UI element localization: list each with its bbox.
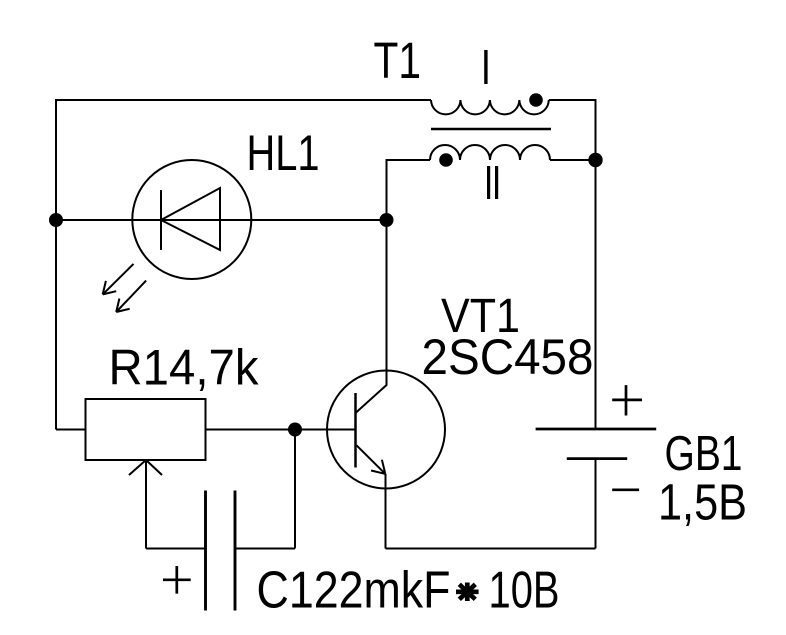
dot winding I phase: [529, 93, 543, 107]
capacitor C1 left plate: [204, 491, 207, 611]
wire winding I right to corner: [549, 100, 596, 160]
asterisk star in C1 value: [456, 583, 479, 602]
wire base node to transistor: [295, 429, 356, 431]
LED HL1 emission arrow 1: [103, 264, 134, 295]
resistor R1 body: [86, 399, 206, 460]
resistor R1 wiper arrow: [129, 460, 162, 549]
svg-text:10B: 10B: [489, 562, 560, 620]
LED HL1 emission arrow 2: [116, 281, 146, 312]
battery minus sign: [612, 488, 639, 491]
label winding I: [484, 50, 487, 84]
transformer T1 secondary winding II: [430, 145, 550, 160]
node junction right rail: [588, 153, 602, 167]
wire left vertical: [55, 100, 57, 430]
transistor VT1 base bar: [354, 393, 357, 468]
LED HL1 circle: [132, 160, 251, 279]
node LED right: [380, 213, 394, 227]
battery GB1 short plate: [567, 457, 627, 460]
node base junction: [288, 423, 302, 437]
svg-text:2SC458: 2SC458: [422, 329, 594, 385]
wire winding II left down to LED node: [387, 160, 431, 220]
wire left down to resistor: [56, 429, 86, 431]
transistor VT1 emitter with arrow: [357, 445, 386, 474]
wire right rail down to battery: [595, 160, 597, 429]
wire resistor right to base node: [206, 429, 296, 431]
svg-text:R14,7k: R14,7k: [109, 340, 260, 396]
svg-text:HL1: HL1: [247, 125, 320, 181]
wire capacitor left lead: [146, 548, 206, 550]
transformer T1 primary winding I: [431, 100, 549, 114]
capacitor C1 plus sign: [163, 566, 191, 594]
wire battery bottom: [595, 459, 597, 549]
svg-text:C122mkF: C122mkF: [257, 562, 451, 620]
dot winding II phase: [439, 153, 453, 167]
LED HL1 triangle: [161, 188, 220, 250]
wire base node down to capacitor: [294, 430, 296, 549]
svg-text:1,5В: 1,5В: [658, 473, 747, 530]
transformer T1 core: [431, 128, 551, 131]
svg-text:T1: T1: [374, 32, 422, 89]
wire top horizontal: [55, 99, 431, 101]
wire LED horizontal: [56, 219, 387, 221]
wire capacitor right lead: [235, 548, 295, 550]
battery GB1 long plate: [536, 428, 657, 431]
transistor VT1 circle: [327, 371, 445, 489]
wire emitter down: [385, 474, 387, 549]
wire winding II right to right rail: [550, 159, 596, 161]
label winding II: [487, 166, 490, 199]
capacitor C1 right plate: [234, 491, 237, 611]
transistor VT1 collector: [356, 220, 387, 413]
wire bottom horizontal: [386, 548, 596, 550]
LED HL1 cathode bar: [160, 190, 162, 250]
battery plus sign: [612, 385, 642, 415]
node LED left: [49, 213, 63, 227]
